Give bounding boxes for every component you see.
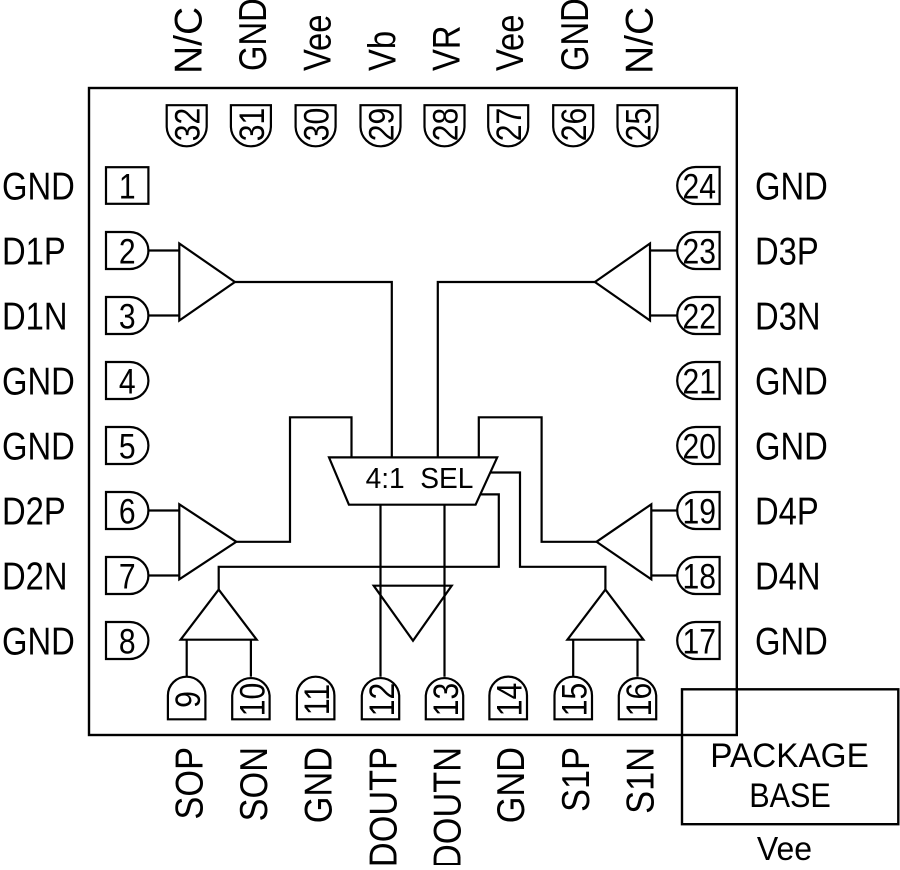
svg-text:S1N: S1N <box>618 747 662 814</box>
svg-text:14: 14 <box>490 683 530 716</box>
svg-text:4:1 SEL: 4:1 SEL <box>366 462 474 494</box>
svg-text:D4N: D4N <box>755 554 821 598</box>
svg-text:3: 3 <box>119 296 136 336</box>
svg-text:DOUTN: DOUTN <box>425 747 469 865</box>
svg-text:8: 8 <box>119 621 136 661</box>
svg-text:D3P: D3P <box>755 229 819 273</box>
svg-text:5: 5 <box>119 426 136 466</box>
svg-text:Vee: Vee <box>487 15 531 71</box>
svg-text:VR: VR <box>424 26 468 71</box>
svg-text:20: 20 <box>682 426 715 466</box>
svg-text:28: 28 <box>425 108 465 141</box>
svg-text:GND: GND <box>489 747 533 823</box>
svg-text:GND: GND <box>297 747 341 823</box>
svg-text:D1P: D1P <box>2 229 66 273</box>
svg-text:27: 27 <box>489 108 529 141</box>
svg-text:29: 29 <box>361 108 401 141</box>
svg-text:9: 9 <box>168 691 208 708</box>
svg-text:12: 12 <box>362 683 402 716</box>
svg-text:7: 7 <box>119 556 136 596</box>
svg-text:11: 11 <box>297 684 337 715</box>
svg-text:13: 13 <box>426 683 466 716</box>
svg-text:24: 24 <box>682 166 715 206</box>
svg-text:Vee: Vee <box>757 831 812 865</box>
svg-text:25: 25 <box>618 108 658 141</box>
svg-text:22: 22 <box>682 296 715 336</box>
svg-text:Vee: Vee <box>295 15 339 71</box>
svg-text:BASE: BASE <box>749 777 831 815</box>
svg-text:18: 18 <box>682 556 715 596</box>
svg-text:D1N: D1N <box>2 294 68 338</box>
svg-text:D2N: D2N <box>2 554 68 598</box>
svg-text:17: 17 <box>682 621 715 661</box>
svg-text:D2P: D2P <box>2 489 66 533</box>
svg-text:GND: GND <box>755 619 828 663</box>
svg-text:19: 19 <box>682 491 715 531</box>
svg-text:GND: GND <box>230 0 274 71</box>
svg-text:15: 15 <box>555 683 595 716</box>
svg-text:SOP: SOP <box>168 747 212 819</box>
svg-text:10: 10 <box>232 683 272 716</box>
svg-text:30: 30 <box>296 108 336 141</box>
svg-text:23: 23 <box>682 231 715 271</box>
svg-text:GND: GND <box>552 0 596 71</box>
svg-text:S1P: S1P <box>554 747 598 812</box>
svg-text:31: 31 <box>232 108 272 141</box>
svg-text:32: 32 <box>168 108 208 141</box>
svg-text:GND: GND <box>755 164 828 208</box>
svg-text:21: 21 <box>682 361 715 401</box>
svg-text:D4P: D4P <box>755 489 819 533</box>
svg-text:GND: GND <box>2 424 75 468</box>
svg-text:2: 2 <box>119 231 136 271</box>
svg-text:GND: GND <box>755 424 828 468</box>
svg-text:1: 1 <box>119 166 136 206</box>
svg-text:N/C: N/C <box>619 7 662 74</box>
svg-text:Vb: Vb <box>360 31 404 71</box>
svg-text:PACKAGE: PACKAGE <box>710 738 869 775</box>
svg-text:SON: SON <box>232 747 276 821</box>
svg-text:D3N: D3N <box>755 294 821 338</box>
svg-text:4: 4 <box>119 361 136 401</box>
svg-text:N/C: N/C <box>168 7 211 74</box>
svg-text:26: 26 <box>554 108 594 141</box>
svg-text:16: 16 <box>619 683 659 716</box>
svg-text:GND: GND <box>2 359 75 403</box>
svg-text:GND: GND <box>2 164 75 208</box>
svg-text:GND: GND <box>2 619 75 663</box>
svg-text:6: 6 <box>119 491 136 531</box>
svg-text:GND: GND <box>755 359 828 403</box>
svg-text:DOUTP: DOUTP <box>361 747 405 865</box>
